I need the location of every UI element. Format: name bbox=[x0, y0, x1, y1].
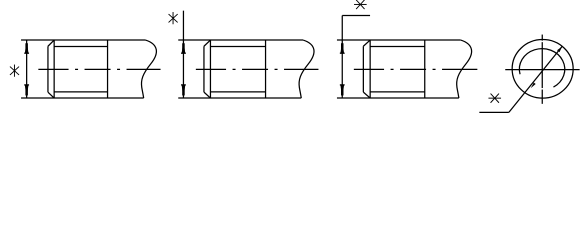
thread root bottom bbox=[370, 91, 425, 93]
end face bbox=[203, 46, 205, 92]
arrow up bbox=[24, 40, 29, 53]
asterisk (vertical variant) bbox=[10, 65, 19, 77]
arrow upper (up-right) bbox=[557, 46, 562, 52]
top edge line bbox=[178, 39, 303, 41]
top edge line bbox=[337, 39, 461, 41]
thread root top bbox=[54, 46, 107, 48]
leader shoulder bbox=[342, 15, 370, 17]
thread root top bbox=[210, 46, 265, 48]
leader shoulder bbox=[479, 111, 509, 113]
asterisk (vertical variant) bbox=[169, 12, 178, 24]
chamfer line bbox=[209, 40, 211, 98]
bottom edge line bbox=[178, 97, 301, 99]
chamfer diagonal top bbox=[204, 40, 211, 46]
asterisk (horizontal variant) bbox=[488, 94, 501, 103]
arrow lower (down-left) bbox=[531, 82, 536, 88]
arrow down bbox=[181, 84, 186, 98]
vertical centerline bbox=[541, 35, 543, 41]
centerline bbox=[354, 68, 478, 70]
thread end bbox=[265, 40, 267, 98]
thread end bbox=[424, 40, 426, 98]
end face bbox=[362, 46, 364, 92]
chamfer diagonal bottom bbox=[48, 92, 54, 98]
extension/top edge line bbox=[21, 39, 146, 41]
extension/bottom edge line bbox=[21, 97, 144, 99]
leader diagonal bbox=[509, 46, 562, 112]
outer circle bbox=[512, 40, 573, 99]
thread root bottom bbox=[54, 91, 107, 93]
centerline bbox=[38, 68, 160, 70]
thread end bbox=[107, 40, 109, 98]
chamfer line bbox=[53, 40, 55, 98]
bottom edge line bbox=[337, 97, 459, 99]
chamfer diagonal bottom bbox=[204, 92, 211, 98]
dimension line bbox=[341, 16, 343, 98]
inner thread arc (gap at bottom) bbox=[519, 49, 564, 87]
end face bbox=[47, 46, 49, 92]
break line bbox=[141, 40, 156, 98]
break line bbox=[457, 40, 472, 98]
centerline bbox=[196, 68, 319, 70]
thread root bottom bbox=[210, 91, 265, 93]
arrow down bbox=[24, 84, 29, 98]
arrow down bbox=[340, 84, 345, 98]
chamfer diagonal top bbox=[48, 40, 54, 46]
asterisk (horizontal variant) bbox=[354, 0, 367, 9]
arrow up bbox=[181, 40, 186, 53]
arrow up bbox=[340, 40, 345, 53]
chamfer line bbox=[369, 40, 371, 98]
break line bbox=[299, 40, 314, 98]
horizontal centerline bbox=[505, 69, 579, 71]
chamfer diagonal top bbox=[363, 40, 370, 46]
thread root top bbox=[370, 46, 425, 48]
dimension line bbox=[26, 40, 28, 98]
dimension line (extended up) bbox=[182, 11, 184, 98]
chamfer diagonal bottom bbox=[363, 92, 370, 98]
